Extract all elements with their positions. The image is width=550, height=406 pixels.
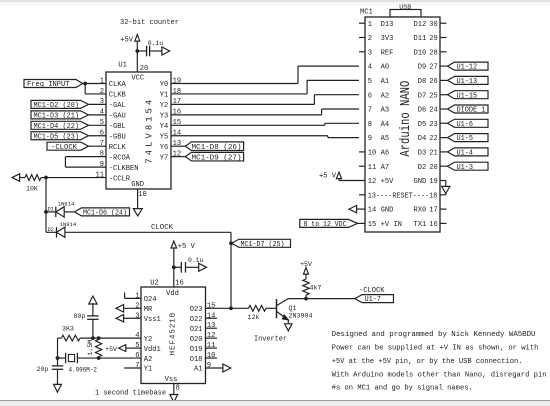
svg-text:REF: REF: [381, 49, 394, 57]
svg-text:U1-3: U1-3: [457, 164, 474, 172]
svg-text:7: 7: [368, 107, 372, 115]
svg-text:0.1u: 0.1u: [188, 257, 204, 264]
wire +5V arrow drop: [338, 179, 340, 181]
svg-text:30: 30: [429, 21, 438, 29]
svg-text:D13: D13: [381, 21, 394, 29]
wire MC1 pin 25 to flag: [440, 94, 448, 96]
wire MC1 pin 1 stub: [359, 22, 365, 24]
svg-text:D8: D8: [418, 78, 427, 86]
connector USB tab: [390, 10, 421, 18]
svg-text:9: 9: [207, 362, 211, 370]
capacitor 20p: [52, 365, 63, 367]
svg-text:U2: U2: [150, 279, 159, 287]
page top edge strip: [0, 0, 550, 2]
wire corner down to crystal: [57, 338, 59, 358]
wire 10K to -CCLR pin 11: [41, 177, 106, 179]
svg-text:A5: A5: [381, 135, 390, 143]
wire U1 GND pin 10 down: [137, 189, 139, 209]
svg-text:80p: 80p: [74, 313, 86, 320]
svg-text:+5V: +5V: [381, 178, 395, 186]
wire O23 pin 15 to 12k: [206, 307, 249, 309]
svg-text:9: 9: [100, 161, 104, 169]
wire CLOCK net vertical: [230, 232, 232, 308]
svg-text:D12: D12: [414, 21, 427, 29]
svg-text:-GBL: -GBL: [109, 123, 126, 131]
ground (U2 bypass, right arrow): [199, 263, 207, 271]
wire junction down to CLKB row: [84, 84, 86, 94]
wire arrow to Vdd1 pin 5: [126, 347, 141, 349]
svg-text:16: 16: [429, 221, 438, 229]
svg-text:19: 19: [173, 77, 182, 85]
svg-text:-GAU: -GAU: [109, 113, 126, 121]
node input arrow (left of 10K): [12, 174, 20, 181]
power +5 V arrow (U2 supply): [171, 241, 177, 248]
svg-text:A4: A4: [381, 121, 390, 129]
wire MC1 pin 29 stub: [440, 37, 447, 39]
junction 1.5M bottom: [97, 356, 101, 360]
svg-text:9: 9: [368, 135, 372, 143]
wire arrow to MR pin 2: [124, 307, 141, 309]
svg-text:1: 1: [135, 292, 139, 300]
svg-text:O22: O22: [190, 316, 203, 324]
node U1-7 flag: [355, 295, 394, 303]
svg-text:USB: USB: [399, 4, 411, 11]
wire MC1 pin 16 stub: [440, 222, 447, 224]
wire U2 pin 13 stub: [206, 327, 218, 329]
wire MC1 pin 18 stub: [440, 194, 447, 196]
svg-text:U1-5: U1-5: [457, 135, 474, 143]
wire Y2 to MC1 A2: [314, 94, 359, 96]
svg-text:1N914: 1N914: [60, 221, 77, 228]
svg-text:Y1: Y1: [144, 366, 153, 374]
wire 3K3 left corner: [58, 337, 62, 339]
wire MC1 pin 11 stub: [359, 165, 365, 167]
wire junction down to D1: [45, 178, 47, 233]
svg-text:A7: A7: [381, 164, 390, 172]
svg-text:D9: D9: [418, 64, 427, 72]
svg-text:A1: A1: [381, 78, 390, 86]
svg-text:O23: O23: [190, 306, 203, 314]
node MC1-D7 (25) flag: [232, 239, 291, 247]
svg-text:U1-6: U1-6: [457, 121, 474, 129]
svg-text:Vss1: Vss1: [144, 316, 161, 324]
wire Y4 to MC1 A4: [325, 122, 359, 124]
node MC1-D9 (27) flag: [185, 152, 243, 161]
svg-text:U1-4: U1-4: [457, 150, 474, 158]
svg-text:32-bit counter: 32-bit counter: [120, 19, 179, 27]
wire junction to U1-7 flag: [306, 298, 355, 300]
svg-text:-CLOCK: -CLOCK: [359, 287, 385, 295]
svg-text:U1: U1: [118, 62, 127, 70]
svg-text:Y4: Y4: [160, 123, 169, 131]
svg-text:2N3904: 2N3904: [289, 312, 313, 319]
svg-text:MR: MR: [144, 306, 153, 314]
svg-text:+5V: +5V: [120, 37, 134, 45]
svg-text:O24: O24: [144, 296, 157, 304]
page bottom strip: [0, 401, 550, 406]
crystal X1 4.096MHz: [65, 353, 67, 363]
wire arrow to resistor 10K: [20, 177, 25, 179]
svg-text:U1-13: U1-13: [457, 78, 478, 86]
svg-text:#s on MC1 and go by signal nam: #s on MC1 and go by signal names.: [332, 385, 473, 393]
junction D1 branch: [44, 210, 48, 214]
wire O24 stub tick: [124, 293, 126, 299]
wire -CLOCK flag to RCLK pin 7: [89, 145, 107, 147]
svg-text:A6: A6: [381, 150, 390, 158]
wire Y3 to MC1 A3: [322, 108, 359, 110]
wire 80p to Y2 row: [92, 319, 94, 338]
wire MC1 pin 17 stub: [440, 208, 447, 210]
IC MC1 Arduino NANO: [365, 17, 440, 232]
svg-text:12: 12: [173, 150, 182, 158]
wire U2 pin 11 stub: [206, 347, 218, 349]
wire MC1 pin 3 stub: [359, 51, 365, 53]
svg-text:11: 11: [95, 171, 104, 179]
svg-text:28: 28: [429, 49, 438, 57]
wire MC1 pin 20 to flag: [440, 165, 448, 167]
svg-text:D1: D1: [48, 207, 54, 213]
page bottom edge line: [0, 400, 550, 401]
node MC1-D8 (26) flag: [185, 142, 243, 151]
node U1-3 flag: [448, 162, 489, 170]
svg-text:3K3: 3K3: [62, 325, 74, 332]
wire Y5 jog vertical: [327, 136, 329, 138]
wire MC1-D4 (22) to U1 pin 5: [89, 124, 107, 126]
svg-text:+5V at the +5V pin, or by the: +5V at the +5V pin, or by the USB connec…: [332, 358, 523, 366]
wire CLOCK net horizontal: [65, 231, 231, 233]
wire MC1 pin 27 to flag: [440, 65, 448, 67]
wire +5V arrow to VCC pin 20: [136, 41, 138, 72]
wire Y3 jog vertical: [321, 109, 323, 115]
svg-text:16: 16: [175, 279, 184, 287]
wire 3K3 to Y2 pin 4: [80, 337, 141, 339]
junction crystal / 20p: [56, 356, 60, 360]
ground (U2 pin 8): [170, 395, 178, 403]
wire MC1 pin 26 to flag: [440, 79, 448, 81]
svg-text:25: 25: [429, 92, 438, 100]
wire loop vertical pin8-pin9: [64, 157, 66, 167]
svg-text:4.096M-2: 4.096M-2: [69, 366, 98, 373]
svg-text:22: 22: [429, 135, 438, 143]
svg-text:MC1-D6 (24): MC1-D6 (24): [83, 210, 127, 218]
svg-text:A0: A0: [381, 64, 390, 72]
svg-text:1.5M: 1.5M: [87, 340, 95, 356]
svg-text:11: 11: [368, 164, 377, 172]
svg-text:D3: D3: [418, 150, 427, 158]
wire U1 Y4 run: [171, 124, 325, 126]
svg-text:HEF4521B: HEF4521B: [170, 312, 178, 355]
ground (MC1 pin 19): [442, 186, 450, 193]
svg-text:14: 14: [173, 130, 182, 138]
wire MC1 pin 21 to flag: [440, 151, 448, 153]
node U1-4 flag: [448, 148, 489, 156]
wire junction down to 20p: [57, 358, 59, 366]
node -CLOCK flag (U1 RCLK): [47, 142, 89, 150]
wire arrow to pin 14: [357, 208, 359, 210]
wire U1 Y2 run: [171, 103, 314, 105]
svg-text:VCC: VCC: [131, 75, 144, 83]
svg-text:19: 19: [429, 178, 438, 186]
svg-text:2: 2: [100, 88, 104, 96]
svg-text:GND: GND: [131, 181, 144, 189]
svg-text:-CLOCK: -CLOCK: [51, 144, 78, 152]
svg-text:3: 3: [368, 49, 372, 57]
transistor Q1 2N3904: [276, 299, 278, 318]
wire crystal left lead: [58, 357, 66, 359]
svg-text:6: 6: [135, 352, 139, 360]
svg-text:GND: GND: [381, 207, 394, 215]
node U1-12 flag: [448, 62, 489, 70]
wire MC1 pin 23 to flag: [440, 122, 448, 124]
svg-text:5: 5: [368, 78, 372, 86]
svg-text:TX1: TX1: [414, 221, 427, 229]
svg-text:+5 V: +5 V: [178, 243, 196, 251]
svg-text:13: 13: [207, 322, 216, 330]
svg-text:A2: A2: [144, 356, 153, 364]
junction CLOCK / O23: [229, 306, 233, 310]
svg-text:5: 5: [100, 119, 104, 127]
svg-text:-CLKBEN: -CLKBEN: [109, 165, 139, 173]
wire Y0 jog vertical: [297, 66, 299, 83]
node input arrow (MC1 GND pin 14): [349, 205, 357, 212]
svg-text:17: 17: [173, 98, 182, 106]
wire A1 pin 9 out: [206, 367, 224, 369]
wire MC1-D5 (23) to U1 pin 6: [89, 135, 107, 137]
svg-text:Y5: Y5: [160, 133, 169, 141]
wire Y1 to MC1 A1: [307, 79, 359, 81]
svg-text:RCLK: RCLK: [109, 144, 127, 152]
svg-text:13: 13: [173, 140, 182, 148]
svg-text:3V3: 3V3: [381, 35, 394, 43]
node +5V arrow (U2 Vdd1 pin 5): [119, 345, 126, 352]
wire emitter drop: [287, 320, 289, 324]
svg-text:20p: 20p: [37, 366, 49, 373]
wire U2 Vss pin 8 down: [173, 384, 175, 395]
svg-text:D5: D5: [418, 121, 427, 129]
svg-text:MC1: MC1: [360, 8, 373, 16]
wire U1 Y5 run: [171, 135, 328, 137]
svg-text:CLKA: CLKA: [109, 81, 127, 89]
wire GND19 drop: [445, 181, 447, 187]
svg-text:O20: O20: [190, 336, 203, 344]
wire capacitor to ground arrow (U2): [186, 266, 199, 268]
svg-text:24: 24: [429, 107, 438, 115]
node U1-15 flag: [448, 91, 489, 99]
svg-text:8: 8: [100, 150, 104, 158]
svg-text:GND: GND: [414, 178, 427, 186]
node MC1-D4 (22) flag: [31, 121, 89, 129]
svg-text:12: 12: [368, 178, 377, 186]
svg-text:15: 15: [173, 119, 182, 127]
wire MC1-D2 (20) to U1 pin 3: [89, 103, 107, 105]
junction Freq INPUT node: [83, 82, 87, 86]
svg-text:10K: 10K: [26, 185, 38, 192]
svg-text:MC1-D7 (25): MC1-D7 (25): [241, 241, 285, 249]
node Freq INPUT flag: [24, 80, 83, 88]
svg-text:3: 3: [135, 312, 139, 320]
svg-text:MC1-D3 (21): MC1-D3 (21): [34, 112, 80, 120]
resistor 4k7: [303, 279, 309, 295]
wire Y2 jog vertical: [313, 95, 315, 105]
svg-text:With Arduino models other than: With Arduino models other than Nano, dis…: [332, 371, 547, 379]
svg-text:Y0: Y0: [160, 81, 169, 89]
svg-text:7: 7: [135, 362, 139, 370]
wire VDC flag to pin 15: [358, 222, 366, 224]
svg-text:5: 5: [135, 342, 139, 350]
node U1-13 flag: [448, 76, 489, 84]
wire +5V arrow to 4k7: [305, 274, 307, 279]
svg-text:D4: D4: [418, 135, 427, 143]
svg-text:14: 14: [368, 207, 377, 215]
IC U2 HEF4521B timebase: [135, 279, 215, 392]
diode D1 1N914: [55, 207, 57, 217]
svg-text:4: 4: [368, 64, 372, 72]
svg-text:15: 15: [368, 221, 377, 229]
wire MC1 pin 14 stub: [359, 208, 365, 210]
wire junction to capacitor: [137, 50, 146, 52]
svg-text:Y7: Y7: [160, 154, 169, 162]
svg-text:Y6: Y6: [160, 144, 169, 152]
svg-text:A1: A1: [194, 366, 203, 374]
wire corner to D2 cathode: [46, 231, 57, 233]
svg-text:6: 6: [368, 92, 372, 100]
svg-text:1: 1: [368, 21, 372, 29]
svg-text:1N914: 1N914: [58, 201, 75, 208]
power +5V arrow (U1 supply): [135, 35, 140, 42]
svg-text:MC1-D2 (20): MC1-D2 (20): [34, 102, 80, 110]
capacitor 80p: [87, 315, 98, 317]
svg-text:MC1-D9 (27): MC1-D9 (27): [192, 154, 242, 162]
capacitor 0.1u (U2 bypass): [180, 262, 182, 273]
wire 20p to ground: [57, 369, 59, 385]
svg-text:12: 12: [207, 332, 216, 340]
svg-text:4: 4: [100, 109, 104, 117]
svg-text:Y3: Y3: [160, 113, 169, 121]
svg-text:20: 20: [140, 65, 149, 73]
svg-text:U1-15: U1-15: [457, 92, 478, 100]
wire 4k7 to collector junction: [305, 295, 307, 299]
svg-text:D2: D2: [48, 227, 54, 233]
IC U1 74LV8154 counter: [95, 62, 181, 199]
wire crystal to A2 pin 6: [77, 357, 141, 359]
svg-text:Vss: Vss: [165, 376, 178, 384]
wire MC1 pin 13 stub: [359, 194, 365, 196]
svg-text:O19: O19: [190, 346, 203, 354]
node U1-5 flag: [448, 134, 489, 142]
junction +5V / C bypass: [135, 49, 139, 53]
ground (U1 pin 10): [133, 209, 142, 216]
svg-text:Inverter: Inverter: [254, 336, 287, 344]
wire junction to D1 cathode: [46, 211, 56, 213]
node DIODE 1 flag: [448, 105, 489, 113]
svg-text:+5V: +5V: [105, 346, 117, 353]
svg-text:21: 21: [429, 150, 438, 158]
svg-text:10: 10: [368, 150, 377, 158]
svg-text:-RCOA: -RCOA: [109, 154, 131, 162]
wire U2 pin 10 stub: [206, 357, 218, 359]
svg-text:CLKB: CLKB: [109, 92, 126, 100]
wire Y5 to MC1 A5: [328, 137, 359, 139]
wire 12k to Q1 base: [266, 307, 277, 309]
svg-text:MC1-D5 (23): MC1-D5 (23): [34, 133, 80, 141]
wire MC1 pin 24 to flag: [440, 108, 448, 110]
svg-text:29: 29: [429, 35, 438, 43]
svg-text:Designed and programmed by Nic: Designed and programmed by Nick Kennedy …: [332, 331, 536, 339]
wire -CLKBEN pin 9 left: [65, 166, 106, 168]
svg-text:4k7: 4k7: [310, 284, 322, 291]
svg-text:D7: D7: [418, 92, 427, 100]
diode D2 1N914: [56, 227, 58, 237]
svg-text:20: 20: [429, 164, 438, 172]
svg-text:12k: 12k: [248, 314, 260, 321]
node MC1-D2 (20) flag: [31, 100, 89, 108]
svg-text:Y2: Y2: [144, 336, 153, 344]
svg-text:3: 3: [100, 98, 104, 106]
svg-text:+V IN: +V IN: [381, 221, 402, 229]
svg-text:A3: A3: [381, 107, 390, 115]
ground (20p): [54, 384, 62, 392]
wire capacitor to ground arrow: [150, 50, 161, 52]
svg-text:CLOCK: CLOCK: [151, 224, 174, 232]
wire MC1 pin 10 stub: [359, 151, 365, 153]
svg-text:2: 2: [135, 302, 139, 310]
notes text block: [332, 331, 547, 393]
wire U2 pin 12 stub: [206, 337, 218, 339]
svg-text:U1-12: U1-12: [457, 64, 478, 72]
wire +5V to pin 12: [339, 180, 365, 182]
wire to CLKB pin 2: [85, 93, 106, 95]
node 8 to 12 VDC flag: [300, 219, 358, 227]
svg-text:Power can be supplied at +V IN: Power can be supplied at +V IN as shown,…: [332, 344, 539, 352]
svg-text:D6: D6: [418, 107, 427, 115]
svg-text:O21: O21: [190, 326, 203, 334]
wire MC1 pin 22 to flag: [440, 137, 448, 139]
node MC1-D5 (23) flag: [31, 132, 89, 140]
wire MC1 pin 30 stub: [440, 22, 447, 24]
svg-text:D2: D2: [418, 164, 427, 172]
svg-text:0.1u: 0.1u: [148, 40, 164, 47]
wire -RCOA pin 8 left: [65, 156, 106, 158]
svg-text:8: 8: [176, 385, 180, 393]
svg-text:RX0: RX0: [414, 207, 427, 215]
wire MC1 pin 28 stub: [440, 51, 447, 53]
wire Y7 to flag: [171, 156, 185, 158]
wire +5V arrow to Vdd pin 16: [173, 248, 175, 287]
svg-text:Vdd1: Vdd1: [144, 346, 161, 354]
node input arrow (U2 Vss1 pin 3): [116, 315, 124, 322]
svg-text:1: 1: [100, 77, 104, 85]
svg-text:23: 23: [429, 121, 438, 129]
svg-text:4: 4: [135, 332, 139, 340]
junction 10K / diode branch: [44, 176, 48, 180]
node MC1-D3 (21) flag: [31, 111, 89, 119]
wire Y1 jog vertical: [306, 80, 308, 94]
svg-text:10: 10: [207, 352, 216, 360]
wire Freq INPUT to CLKA pin 1: [83, 83, 107, 85]
svg-text:-GBU: -GBU: [109, 133, 126, 141]
junction 80p / Y2: [91, 336, 95, 340]
wire Y1 pin 7 stub: [124, 367, 141, 369]
ground (U1 bypass, right arrow): [162, 47, 170, 55]
resistor 3K3: [61, 335, 80, 341]
svg-text:27: 27: [429, 64, 438, 72]
capacitor 0.1u (U1 bypass): [146, 46, 148, 57]
svg-text:13----RESET----18: 13----RESET----18: [368, 192, 438, 200]
svg-text:+5 V: +5 V: [319, 173, 337, 181]
svg-text:7: 7: [100, 140, 104, 148]
wire MC1-D3 (21) to U1 pin 4: [89, 114, 107, 116]
wire U1 Y0 run: [171, 83, 298, 85]
